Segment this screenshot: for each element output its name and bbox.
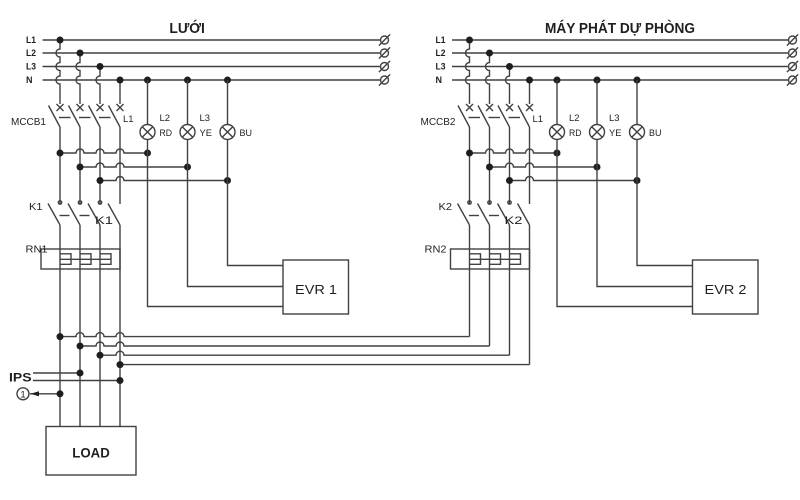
svg-text:MCCB1: MCCB1 bbox=[11, 116, 46, 128]
wire lamp RD to EVR 2 bbox=[557, 140, 693, 307]
wire N to lamp 3 (generator) bbox=[636, 80, 638, 125]
junction L3 tap (grid) bbox=[97, 63, 104, 70]
junction N tap (grid) bbox=[117, 77, 124, 84]
junction IPS sense 2 bbox=[117, 377, 124, 384]
wire N to lamp 1 (grid) bbox=[147, 80, 149, 125]
wire lamp BU to EVR 2 bbox=[637, 140, 693, 266]
K1 linkage dash 2 bbox=[80, 215, 90, 217]
lamp RD indicator (generator) bbox=[550, 125, 565, 140]
terminal Ø L3 (generator) bbox=[787, 61, 798, 72]
junction wire3 at pole (generator) bbox=[506, 177, 513, 184]
MCCB2 linkage dash 3 bbox=[509, 117, 521, 119]
contactor K1 pole 4 bbox=[108, 204, 120, 226]
svg-text:MÁY PHÁT DỰ PHÒNG: MÁY PHÁT DỰ PHÒNG bbox=[545, 19, 695, 37]
breaker MCCB2 pole 4 (terminal x + blade) bbox=[518, 104, 533, 127]
breaker MCCB2 pole 1 (terminal x + blade) bbox=[458, 104, 473, 127]
contactor K1 pole 3 bbox=[88, 201, 102, 225]
K2 linkage dash 1 bbox=[469, 215, 479, 217]
wire phase L3 to lamp 3 (generator) bbox=[510, 177, 638, 181]
junction N tap lamp 1 (grid) bbox=[144, 77, 151, 84]
wire IPS sense 2 bbox=[33, 380, 120, 382]
junction wire2 at pole (grid) bbox=[77, 164, 84, 171]
breaker MCCB1 pole 4 (terminal x + blade) bbox=[109, 104, 124, 127]
contactor K2 pole 3 bbox=[498, 201, 512, 225]
thermal relay RN1 box bbox=[41, 249, 120, 269]
junction marker 1 on feeder L1 bbox=[57, 390, 64, 397]
wire MCCB2 pole 4 output to K2 bbox=[529, 127, 531, 204]
wire MCCB2 pole 1 output to K2 bbox=[469, 127, 471, 205]
K1 linkage dash 1 bbox=[60, 215, 70, 217]
junction wire3 at pole (grid) bbox=[97, 177, 104, 184]
svg-text:K2: K2 bbox=[439, 201, 453, 213]
svg-text:L3: L3 bbox=[436, 62, 446, 72]
terminal Ø L2 (grid) bbox=[379, 47, 390, 58]
svg-text:L3: L3 bbox=[609, 113, 620, 124]
lamp BU indicator (generator) bbox=[630, 125, 645, 140]
junction N tap lamp 2 (generator) bbox=[594, 77, 601, 84]
svg-text:K1: K1 bbox=[29, 201, 43, 213]
svg-text:BU: BU bbox=[240, 128, 253, 139]
contactor K2 pole 4 bbox=[518, 204, 530, 226]
svg-text:RN1: RN1 bbox=[26, 244, 48, 256]
wire K2 pole 3 output down to tie 3 bbox=[509, 225, 511, 355]
RN2 element link line bbox=[470, 258, 521, 260]
wire phase L1 to lamp 1 (grid) bbox=[60, 149, 148, 153]
breaker MCCB1 pole 1 (terminal x + blade) bbox=[49, 104, 64, 127]
wire L3 bus (grid) bbox=[43, 66, 381, 68]
thermal relay RN2 box bbox=[451, 249, 530, 269]
junction N tap lamp 1 (generator) bbox=[554, 77, 561, 84]
node marker 1 (circled) bbox=[17, 388, 29, 401]
junction wire2 at lamp (grid) bbox=[184, 164, 191, 171]
svg-text:L1: L1 bbox=[436, 35, 446, 45]
wire N to lamp 3 (grid) bbox=[227, 80, 229, 125]
svg-text:YE: YE bbox=[609, 128, 622, 139]
wire tie line 4 (output bus phase N) bbox=[120, 364, 530, 366]
terminal Ø L3 (grid) bbox=[379, 61, 390, 72]
junction N tap (generator) bbox=[526, 77, 533, 84]
junction wire1 at lamp (grid) bbox=[144, 150, 151, 157]
breaker MCCB2 pole 2 (terminal x + blade) bbox=[478, 104, 493, 127]
svg-text:1: 1 bbox=[20, 389, 25, 400]
wire tap L2 to MCCB2 pole 2 bbox=[486, 53, 490, 104]
junction wire3 at lamp (generator) bbox=[634, 177, 641, 184]
wire lamp YE to EVR 2 bbox=[597, 140, 693, 287]
RN2 heater element 1 bbox=[470, 254, 481, 264]
junction IPS sense 1 bbox=[77, 370, 84, 377]
wire phase L3 to lamp 3 (grid) bbox=[100, 177, 228, 181]
terminal Ø N (grid) bbox=[379, 74, 390, 85]
junction N tap lamp 2 (grid) bbox=[184, 77, 191, 84]
wire L1 bus (generator) bbox=[452, 39, 789, 41]
junction N tap lamp 3 (grid) bbox=[224, 77, 231, 84]
svg-text:RD: RD bbox=[569, 128, 582, 139]
RN2 heater element 2 bbox=[490, 254, 501, 264]
terminal Ø L2 (generator) bbox=[787, 47, 798, 58]
wire phase L2 to lamp 2 (generator) bbox=[490, 163, 598, 167]
lamp YE indicator (generator) bbox=[590, 125, 605, 140]
wire MCCB1 pole 1 output to K1 bbox=[59, 127, 61, 205]
MCCB2 linkage dash 1 bbox=[469, 117, 481, 119]
RN1 heater element 2 bbox=[80, 254, 91, 264]
lamp YE indicator (grid) bbox=[180, 125, 195, 140]
svg-text:N: N bbox=[26, 75, 33, 85]
callout arrow from marker 1 bbox=[30, 391, 60, 396]
wire K2 pole 4 output down to tie 4 bbox=[529, 225, 531, 365]
wire L2 bus (generator) bbox=[452, 52, 789, 54]
wire tie line 1 (output bus phase L1) bbox=[60, 333, 470, 337]
wire MCCB1 pole 3 output to K1 bbox=[99, 127, 101, 205]
wire K1 pole 2 output to LOAD bbox=[79, 225, 81, 427]
svg-text:RD: RD bbox=[160, 128, 173, 139]
wire L1 bus (grid) bbox=[43, 39, 381, 41]
wire K2 pole 2 output down to tie 2 bbox=[489, 225, 491, 346]
MCCB1 linkage dash 1 bbox=[59, 117, 71, 119]
wire MCCB1 pole 2 output to K1 bbox=[79, 127, 81, 205]
svg-text:LƯỚI: LƯỚI bbox=[169, 19, 205, 37]
junction L2 tap (grid) bbox=[77, 50, 84, 57]
wire MCCB2 pole 3 output to K2 bbox=[509, 127, 511, 205]
wire tie line 3 (output bus phase L3) bbox=[100, 351, 510, 355]
MCCB2 linkage dash 2 bbox=[489, 117, 501, 119]
relay EVR 1 box bbox=[283, 260, 349, 314]
svg-text:K1: K1 bbox=[95, 215, 113, 227]
junction tie 2 at load feeder bbox=[77, 343, 84, 350]
junction wire1 at lamp (generator) bbox=[554, 150, 561, 157]
wire tap L1 to MCCB2 pole 1 bbox=[466, 40, 470, 104]
terminal Ø L1 (grid) bbox=[379, 34, 390, 45]
svg-text:L3: L3 bbox=[200, 113, 211, 124]
wire N bus (generator) bbox=[452, 79, 789, 81]
junction wire1 at pole (generator) bbox=[466, 150, 473, 157]
contactor K1 pole 2 bbox=[68, 201, 82, 225]
wire lamp RD to EVR 1 bbox=[148, 140, 284, 307]
svg-text:YE: YE bbox=[200, 128, 213, 139]
wire N to lamp 2 (generator) bbox=[596, 80, 598, 125]
wire IPS sense 1 bbox=[33, 372, 80, 374]
svg-text:EVR 2: EVR 2 bbox=[705, 282, 747, 297]
wire N to lamp 2 (grid) bbox=[187, 80, 189, 125]
breaker MCCB1 pole 3 (terminal x + blade) bbox=[89, 104, 104, 127]
junction L3 tap (generator) bbox=[506, 63, 513, 70]
svg-text:K2: K2 bbox=[505, 215, 523, 227]
lamp RD indicator (grid) bbox=[140, 125, 155, 140]
wire L2 bus (grid) bbox=[43, 52, 381, 54]
junction wire2 at lamp (generator) bbox=[594, 164, 601, 171]
svg-text:L2: L2 bbox=[569, 113, 580, 124]
junction tie 3 at load feeder bbox=[97, 352, 104, 359]
breaker MCCB1 pole 2 (terminal x + blade) bbox=[69, 104, 84, 127]
wire MCCB2 pole 2 output to K2 bbox=[489, 127, 491, 205]
junction L1 tap (grid) bbox=[57, 37, 64, 44]
wire tap L1 to MCCB1 pole 1 bbox=[56, 40, 60, 104]
wire tie line 2 (output bus phase L2) bbox=[80, 342, 490, 346]
wire K1 pole 3 output to LOAD bbox=[99, 225, 101, 427]
junction tie 4 at load feeder bbox=[117, 361, 124, 368]
RN1 heater element 1 bbox=[60, 254, 71, 264]
svg-text:N: N bbox=[436, 75, 443, 85]
breaker MCCB2 pole 3 (terminal x + blade) bbox=[498, 104, 513, 127]
wire tap N to MCCB2 pole 4 bbox=[529, 80, 531, 104]
RN1 element link line bbox=[60, 258, 111, 260]
relay EVR 2 box bbox=[693, 260, 759, 314]
svg-text:L3: L3 bbox=[26, 62, 36, 72]
junction wire1 at pole (grid) bbox=[57, 150, 64, 157]
svg-text:L1: L1 bbox=[533, 114, 544, 125]
svg-text:L2: L2 bbox=[436, 48, 446, 58]
svg-text:LOAD: LOAD bbox=[72, 446, 110, 461]
svg-text:BU: BU bbox=[649, 128, 662, 139]
svg-text:L1: L1 bbox=[123, 114, 134, 125]
svg-text:L2: L2 bbox=[26, 48, 36, 58]
wire tap L3 to MCCB2 pole 3 bbox=[506, 67, 510, 105]
wire phase L2 to lamp 2 (grid) bbox=[80, 163, 188, 167]
svg-text:L1: L1 bbox=[26, 35, 36, 45]
wire N to lamp 1 (generator) bbox=[556, 80, 558, 125]
svg-text:IPS: IPS bbox=[9, 371, 32, 385]
wire K2 pole 1 output down to tie 1 bbox=[469, 225, 471, 337]
terminal Ø L1 (generator) bbox=[787, 34, 798, 45]
svg-text:MCCB2: MCCB2 bbox=[421, 116, 456, 128]
contactor K2 pole 1 bbox=[458, 201, 472, 225]
MCCB1 linkage dash 2 bbox=[79, 117, 91, 119]
K2 linkage dash 2 bbox=[489, 215, 499, 217]
wire tap L2 to MCCB1 pole 2 bbox=[76, 53, 80, 104]
load LOAD box bbox=[46, 427, 136, 476]
lamp BU indicator (grid) bbox=[220, 125, 235, 140]
RN2 heater element 3 bbox=[510, 254, 521, 264]
wire lamp YE to EVR 1 bbox=[188, 140, 284, 287]
svg-text:RN2: RN2 bbox=[425, 244, 447, 256]
MCCB1 linkage dash 3 bbox=[99, 117, 111, 119]
junction wire3 at lamp (grid) bbox=[224, 177, 231, 184]
svg-text:EVR 1: EVR 1 bbox=[295, 282, 337, 297]
junction N tap lamp 3 (generator) bbox=[634, 77, 641, 84]
wire tap N to MCCB1 pole 4 bbox=[119, 80, 121, 104]
contactor K1 pole 1 bbox=[48, 201, 62, 225]
junction L2 tap (generator) bbox=[486, 50, 493, 57]
wire MCCB1 pole 4 output to K1 bbox=[119, 127, 121, 204]
junction L1 tap (generator) bbox=[466, 37, 473, 44]
wire lamp BU to EVR 1 bbox=[228, 140, 284, 266]
wire K1 pole 4 output to LOAD bbox=[119, 225, 121, 427]
wire tap L3 to MCCB1 pole 3 bbox=[96, 67, 100, 105]
junction wire2 at pole (generator) bbox=[486, 164, 493, 171]
terminal Ø N (generator) bbox=[787, 74, 798, 85]
junction tie 1 at load feeder bbox=[57, 333, 64, 340]
wire K1 pole 1 output to LOAD bbox=[59, 225, 61, 427]
svg-text:L2: L2 bbox=[160, 113, 171, 124]
wire L3 bus (generator) bbox=[452, 66, 789, 68]
RN1 heater element 3 bbox=[100, 254, 111, 264]
contactor K2 pole 2 bbox=[478, 201, 492, 225]
wire N bus (grid) bbox=[43, 79, 381, 81]
wire phase L1 to lamp 1 (generator) bbox=[470, 149, 558, 153]
